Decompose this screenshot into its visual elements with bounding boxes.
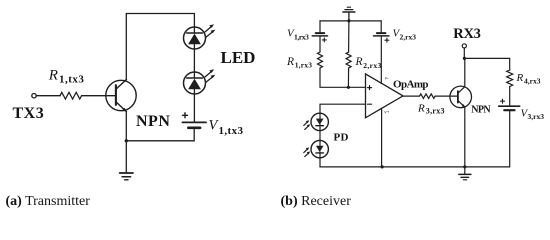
svg-text:R: R xyxy=(286,56,294,68)
svg-text:NPN: NPN xyxy=(136,113,170,130)
wire xyxy=(126,129,194,141)
svg-text:(a) Transmitter: (a) Transmitter xyxy=(6,194,91,209)
svg-text:1,rx3: 1,rx3 xyxy=(294,32,309,41)
label v+ supply pin xyxy=(384,111,390,116)
node xyxy=(381,165,384,168)
wire xyxy=(380,37,382,84)
ground (transmitter) xyxy=(120,173,133,180)
svg-text:(b) Receiver: (b) Receiver xyxy=(281,194,352,209)
svg-text:R: R xyxy=(417,102,425,114)
caption (a) Transmitter xyxy=(6,194,91,209)
label V2,rx3 xyxy=(393,28,417,42)
label PD xyxy=(334,132,349,144)
svg-text:LED: LED xyxy=(221,48,256,67)
node xyxy=(347,86,350,89)
resistor R1,tx3 xyxy=(60,92,82,99)
battery V3,rx3 xyxy=(499,99,520,110)
wire xyxy=(348,21,350,52)
wire xyxy=(125,141,127,173)
label R1,rx3 xyxy=(286,56,312,70)
transistor Q1 xyxy=(106,79,136,112)
label R4,rx3 xyxy=(516,72,541,86)
svg-text:2,rx3: 2,rx3 xyxy=(363,61,381,70)
battery V1,tx3 xyxy=(182,113,206,128)
label v- supply pin xyxy=(385,77,389,82)
wire xyxy=(464,107,466,167)
wire xyxy=(125,14,127,80)
wire xyxy=(193,14,195,34)
wire xyxy=(320,104,366,118)
svg-text:2,rx3: 2,rx3 xyxy=(400,32,417,41)
battery V1,rx3 xyxy=(312,33,327,42)
wire xyxy=(463,48,465,58)
svg-text:1,rx3: 1,rx3 xyxy=(295,61,313,70)
svg-text:1,tx3: 1,tx3 xyxy=(219,125,244,137)
wire xyxy=(380,21,382,32)
svg-text:TX3: TX3 xyxy=(13,105,45,122)
transistor Q2 xyxy=(450,86,472,108)
resistor R3,rx3 xyxy=(420,94,436,99)
svg-text:R: R xyxy=(48,68,58,84)
wire xyxy=(319,21,321,32)
caption (b) Receiver xyxy=(281,194,352,209)
label OpAmp xyxy=(393,79,428,91)
label R1,tx3 xyxy=(48,68,85,86)
wire xyxy=(509,111,511,167)
svg-text:PD: PD xyxy=(334,132,349,144)
svg-text:3,rx3: 3,rx3 xyxy=(528,112,545,121)
svg-text:v-: v- xyxy=(385,77,389,82)
svg-text:NPN: NPN xyxy=(471,105,491,116)
svg-text:4,rx3: 4,rx3 xyxy=(524,77,541,86)
node TX3 label xyxy=(13,105,45,122)
wire xyxy=(125,112,127,141)
label V3,rx3 xyxy=(521,107,545,121)
svg-text:R: R xyxy=(516,72,524,84)
svg-text:1,tx3: 1,tx3 xyxy=(59,73,84,85)
terminal TX3 xyxy=(32,94,36,98)
wire xyxy=(36,95,60,97)
label R2,rx3 xyxy=(355,56,382,70)
wire xyxy=(82,95,116,97)
label V1,rx3 xyxy=(287,28,309,42)
ground (receiver) xyxy=(459,167,471,180)
wire xyxy=(193,89,195,121)
battery V2,rx3 xyxy=(374,33,389,42)
resistor R2,rx3 xyxy=(346,52,351,68)
svg-text:OpAmp: OpAmp xyxy=(393,79,428,91)
wire xyxy=(320,166,510,168)
label NPN (receiver) xyxy=(471,105,491,116)
wire xyxy=(347,68,349,87)
svg-text:RX3: RX3 xyxy=(453,26,480,42)
node junction xyxy=(125,139,128,142)
wire xyxy=(193,44,195,78)
wire xyxy=(320,20,381,22)
wire xyxy=(464,58,509,70)
wire xyxy=(319,125,321,146)
wire xyxy=(381,108,383,167)
label NPN (transmitter) xyxy=(136,113,170,130)
label LED xyxy=(221,48,256,67)
photodiode PD1 xyxy=(304,113,329,130)
wire xyxy=(126,13,194,15)
node xyxy=(347,19,350,22)
photodiode PD2 xyxy=(304,140,329,157)
svg-text:3,rx3: 3,rx3 xyxy=(426,107,445,116)
wire xyxy=(320,68,366,87)
label R3,rx3 xyxy=(417,102,445,115)
resistor R4,rx3 xyxy=(507,70,513,87)
wire xyxy=(435,95,458,97)
wire xyxy=(403,95,420,97)
wire xyxy=(319,37,321,52)
terminal RX3 xyxy=(462,44,466,48)
label V1,tx3 xyxy=(209,118,244,137)
wire xyxy=(464,58,466,86)
resistor R1,rx3 xyxy=(318,52,323,68)
LED D2 xyxy=(184,69,216,94)
ground (receiver top rail) xyxy=(343,7,355,21)
node xyxy=(463,165,466,168)
svg-text:R: R xyxy=(355,56,363,68)
label RX3 xyxy=(453,26,480,42)
wire xyxy=(509,87,511,106)
svg-text:v+: v+ xyxy=(384,111,390,116)
wire xyxy=(319,152,321,167)
op-amp U1 xyxy=(366,74,404,118)
LED D1 xyxy=(184,24,216,49)
node xyxy=(463,57,466,60)
